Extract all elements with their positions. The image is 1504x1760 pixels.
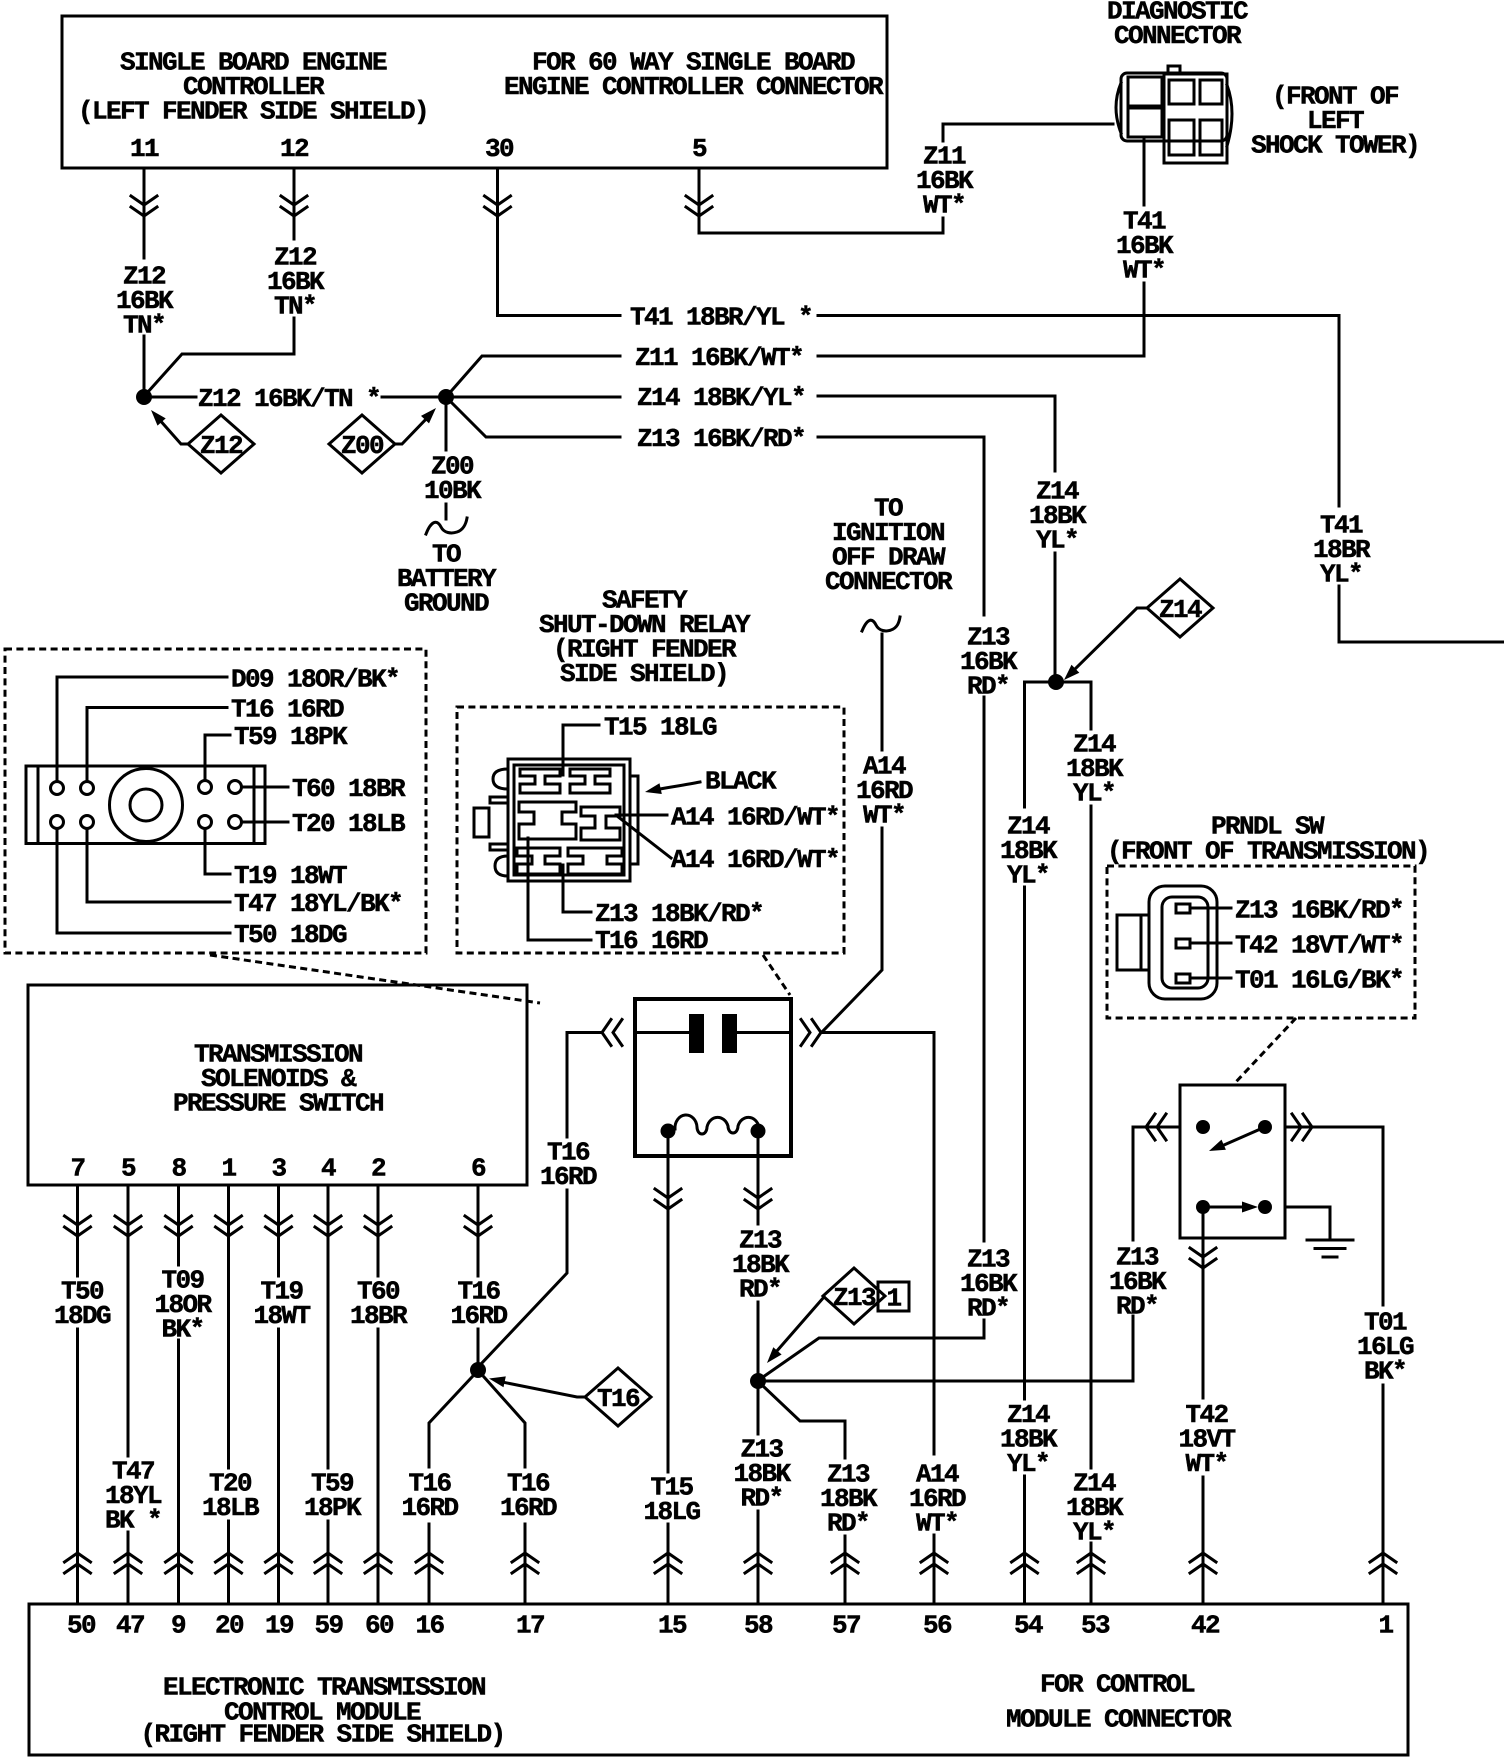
svg-text:59: 59 bbox=[314, 1610, 343, 1640]
svg-text:2: 2 bbox=[371, 1153, 386, 1183]
svg-text:ENGINE CONTROLLER CONNECTOR: ENGINE CONTROLLER CONNECTOR bbox=[504, 72, 884, 102]
wire to ground bbox=[1285, 1207, 1330, 1238]
wire A14 16RD WT pin 56 bbox=[821, 1033, 934, 1605]
svg-text:BK*: BK* bbox=[1364, 1356, 1406, 1386]
wire A14 16RD WT bbox=[823, 634, 882, 1031]
wire Z13 splice to PRNDL bbox=[766, 1380, 1133, 1383]
svg-text:7: 7 bbox=[70, 1153, 84, 1183]
label Z12 16BK TN* pin11 bbox=[116, 261, 174, 340]
label Z14 18BK YL* x1026 bbox=[1000, 811, 1058, 890]
connector chevron module entry bbox=[832, 1553, 858, 1573]
svg-text:Z13 18BK/RD*: Z13 18BK/RD* bbox=[595, 899, 763, 929]
label Z13 18BK RD* pin58 bbox=[733, 1434, 791, 1513]
svg-text:YL*: YL* bbox=[1073, 1517, 1115, 1547]
svg-text:6: 6 bbox=[471, 1153, 486, 1183]
dashed box transmission connector bbox=[5, 649, 426, 953]
label Z14 18BK YL* pin54 bbox=[1000, 1400, 1058, 1479]
connector chevron module entry bbox=[1190, 1553, 1216, 1573]
connector chevron capacitor right bbox=[801, 1020, 821, 1046]
wire Z14 branch pin 53 bbox=[1064, 682, 1091, 1604]
pointer Z13 diamond bbox=[776, 1297, 824, 1352]
label T16 16RD pin16 bbox=[401, 1468, 458, 1523]
svg-text:Z00: Z00 bbox=[341, 431, 384, 461]
diamond Z14 bbox=[1147, 579, 1213, 637]
wire T16 16RD pin 6 bbox=[477, 1185, 480, 1362]
relay coil terminal left bbox=[661, 1124, 676, 1139]
svg-text:WT*: WT* bbox=[916, 1508, 958, 1538]
trace T20 bbox=[242, 821, 288, 824]
svg-text:17: 17 bbox=[516, 1610, 544, 1640]
connector chevron pin5 bbox=[686, 196, 712, 216]
svg-text:RD*: RD* bbox=[967, 1293, 1009, 1323]
label T59 18PK bbox=[304, 1468, 362, 1523]
electronic transmission control module box bbox=[29, 1604, 1408, 1755]
trace D09 bbox=[57, 677, 227, 781]
diagnostic connector symbol bbox=[1116, 66, 1232, 163]
svg-text:TN*: TN* bbox=[274, 291, 316, 321]
svg-text:Z11 16BK/WT*: Z11 16BK/WT* bbox=[635, 343, 803, 373]
wire T41 18BR YL right edge bbox=[1339, 316, 1504, 643]
trace T50 bbox=[57, 829, 230, 933]
relay coil bbox=[675, 1115, 759, 1134]
splice node Z12 bbox=[136, 389, 152, 405]
connector chevron pin30 bbox=[485, 196, 511, 216]
diamond T16 bbox=[585, 1368, 651, 1426]
connector chevron module entry bbox=[115, 1553, 141, 1573]
svg-text:56: 56 bbox=[923, 1610, 952, 1640]
splice node Z14 bbox=[1048, 674, 1064, 690]
wire break ignition off draw bbox=[862, 617, 900, 631]
label diagnostic connector bbox=[1107, 0, 1248, 51]
svg-text:A14 16RD/WT*: A14 16RD/WT* bbox=[671, 845, 839, 875]
wire Z11 16BK/WT bbox=[446, 356, 1144, 397]
svg-text:8: 8 bbox=[171, 1153, 186, 1183]
svg-text:T50 18DG: T50 18DG bbox=[234, 920, 347, 950]
wire T15 pin15 lower bbox=[667, 1524, 670, 1604]
trace T59 bbox=[205, 735, 230, 780]
svg-text:T16: T16 bbox=[597, 1384, 640, 1414]
label A14 16RD WT* pin56 bbox=[909, 1459, 966, 1538]
svg-text:1: 1 bbox=[221, 1153, 236, 1183]
svg-text:60: 60 bbox=[365, 1610, 394, 1640]
svg-text:53: 53 bbox=[1081, 1610, 1110, 1640]
wire Z13 18BK RD from relay bbox=[757, 1138, 760, 1373]
svg-text:RD*: RD* bbox=[740, 1483, 782, 1513]
wire Z14 down to splice bbox=[1054, 396, 1057, 674]
wire Z14 branch pin 54 bbox=[1025, 682, 1049, 1604]
wire T20 18LB pin 20 bbox=[227, 1185, 230, 1604]
pointer T16 diamond bbox=[497, 1381, 585, 1397]
svg-text:(RIGHT FENDER SIDE SHIELD): (RIGHT FENDER SIDE SHIELD) bbox=[140, 1719, 504, 1749]
connector chevron module entry bbox=[655, 1553, 681, 1573]
svg-text:16RD: 16RD bbox=[401, 1493, 458, 1523]
svg-text:T19 18WT: T19 18WT bbox=[234, 861, 347, 891]
splice node Z13 bbox=[750, 1373, 766, 1389]
trace A14 no1 bbox=[616, 814, 667, 817]
engine controller box bbox=[62, 16, 887, 168]
trace PRNDL T01 bbox=[1190, 977, 1231, 980]
splice node Z00 bbox=[438, 389, 454, 405]
dashed pointer relay box bbox=[763, 955, 790, 995]
svg-text:T16 16RD: T16 16RD bbox=[595, 926, 708, 956]
svg-text:Z13: Z13 bbox=[833, 1283, 876, 1313]
svg-text:16RD: 16RD bbox=[500, 1493, 557, 1523]
label etcm line1 bbox=[163, 1672, 485, 1702]
svg-text:4: 4 bbox=[321, 1153, 336, 1183]
connector chevron transmission pin 2 bbox=[365, 1216, 391, 1236]
label T47 18YL BK* bbox=[105, 1456, 162, 1535]
svg-text:T47 18YL/BK*: T47 18YL/BK* bbox=[234, 889, 402, 919]
dashed pointer to transmission box bbox=[210, 955, 540, 1003]
label front of transmission bbox=[1107, 836, 1429, 866]
label Z13 16BK RD* x1133 bbox=[1109, 1242, 1167, 1321]
diamond Z13 circuit no.1 bbox=[823, 1268, 885, 1324]
svg-text:Z13 16BK/RD*: Z13 16BK/RD* bbox=[1235, 895, 1403, 925]
svg-text:RD*: RD* bbox=[739, 1274, 781, 1304]
connector body 8-way bbox=[26, 766, 265, 844]
trace PRNDL T42 bbox=[1190, 942, 1231, 945]
svg-text:BK*: BK* bbox=[161, 1314, 203, 1344]
wire T15 18LG pin 15 bbox=[667, 1138, 670, 1472]
svg-text:42: 42 bbox=[1191, 1610, 1220, 1640]
wire T01 16LG BK pin 1 bbox=[1285, 1127, 1383, 1604]
svg-text:30: 30 bbox=[485, 134, 514, 164]
svg-text:18LG: 18LG bbox=[643, 1497, 700, 1527]
svg-text:T20 18LB: T20 18LB bbox=[292, 809, 406, 839]
svg-text:YL*: YL* bbox=[1073, 778, 1115, 808]
label Z13 18BK RD* upper bbox=[732, 1225, 790, 1304]
pointer Z00 diamond bbox=[395, 416, 429, 444]
label BLACK with arrow bbox=[660, 782, 700, 789]
connector chevron transmission pin 4 bbox=[315, 1216, 341, 1236]
label T15 18LG pin15 bbox=[643, 1472, 700, 1527]
svg-text:T60 18BR: T60 18BR bbox=[292, 774, 406, 804]
relay coil terminal right bbox=[751, 1124, 766, 1139]
connector chevron module entry bbox=[921, 1553, 947, 1573]
wire T16 branch pin 16 bbox=[429, 1377, 472, 1604]
label: for 60 way connector bbox=[504, 47, 884, 102]
wire T41 16BK WT from diagnostic connector bbox=[1143, 138, 1146, 355]
svg-text:A14 16RD/WT*: A14 16RD/WT* bbox=[671, 802, 839, 832]
label T16 16RD pin6 bbox=[450, 1276, 507, 1331]
connector chevron module entry bbox=[65, 1553, 91, 1573]
svg-text:16RD: 16RD bbox=[540, 1162, 597, 1192]
svg-text:50: 50 bbox=[67, 1610, 96, 1640]
wire T16 16RD to splice bbox=[481, 1033, 602, 1365]
label PRNDL SW bbox=[1211, 811, 1325, 841]
svg-text:RD*: RD* bbox=[827, 1508, 869, 1538]
dashed pointer PRNDL switch bbox=[1234, 1018, 1296, 1084]
switch contacts bbox=[1196, 1120, 1210, 1134]
connector chevron prndl right bbox=[1292, 1114, 1312, 1140]
wire pin11 Z12 bbox=[143, 168, 146, 390]
svg-text:WT*: WT* bbox=[863, 800, 905, 830]
svg-text:(LEFT FENDER SIDE SHIELD): (LEFT FENDER SIDE SHIELD) bbox=[78, 96, 428, 126]
connector chevron module entry bbox=[315, 1553, 341, 1573]
wire Z12 16BK/TN inline bbox=[152, 396, 438, 399]
wire pin5 Z11 to diagnostic connector bbox=[699, 124, 1113, 233]
label to ignition off draw connector bbox=[825, 493, 953, 597]
connector chevron transmission pin 8 bbox=[166, 1216, 192, 1236]
label transmission solenoids bbox=[173, 1039, 383, 1118]
label T20 18LB bbox=[202, 1468, 260, 1523]
svg-text:MODULE CONNECTOR: MODULE CONNECTOR bbox=[1006, 1704, 1232, 1734]
label front of left shock tower bbox=[1251, 81, 1419, 160]
label T41 16BK WT* bbox=[1116, 206, 1174, 285]
svg-text:Z14: Z14 bbox=[1159, 595, 1202, 625]
wire pin30 T41 bbox=[498, 168, 621, 316]
svg-text:19: 19 bbox=[265, 1610, 294, 1640]
svg-text:T41 18BR/YL *: T41 18BR/YL * bbox=[630, 302, 812, 332]
connector chevron module entry bbox=[166, 1553, 192, 1573]
connector chevron module entry bbox=[365, 1553, 391, 1573]
diamond Z00 bbox=[329, 415, 395, 473]
connector chevron relay left bbox=[655, 1189, 681, 1209]
label Z14 18BK YL* upper bbox=[1029, 476, 1087, 555]
label to battery ground bbox=[397, 539, 497, 618]
svg-text:5: 5 bbox=[692, 134, 707, 164]
wire T42 18VT WT pin 42 bbox=[1202, 1214, 1205, 1604]
svg-text:16: 16 bbox=[415, 1610, 444, 1640]
dashed box relay connector bbox=[457, 707, 844, 953]
label safety shut-down relay bbox=[539, 585, 751, 689]
wire Z13 16BK RD prndl left bbox=[1133, 1127, 1180, 1381]
label T42 18VT WT* bbox=[1178, 1400, 1235, 1479]
label Z13 16BK RD* upper bbox=[960, 622, 1018, 701]
connector chevron prndl left bbox=[1146, 1114, 1166, 1140]
wire T47 18YL BK pin 47 bbox=[127, 1185, 130, 1604]
trace T16 bbox=[87, 708, 227, 782]
svg-text:18BR: 18BR bbox=[350, 1301, 408, 1331]
svg-text:T16 16RD: T16 16RD bbox=[231, 694, 344, 724]
svg-text:BK *: BK * bbox=[105, 1505, 161, 1535]
label T19 18WT bbox=[253, 1276, 310, 1331]
svg-text:WT*: WT* bbox=[1185, 1449, 1227, 1479]
relay box bbox=[635, 999, 791, 1156]
transmission solenoids box bbox=[28, 985, 527, 1185]
label Z12 16BK TN* pin12 bbox=[267, 242, 325, 321]
connector chevron capacitor left bbox=[602, 1020, 622, 1046]
wire break to battery ground bbox=[426, 518, 467, 534]
connector chevron transmission pin 1 bbox=[216, 1216, 242, 1236]
connector chevron module entry bbox=[266, 1553, 292, 1573]
label T60 18BR bbox=[350, 1276, 408, 1331]
wire Z13 16BK/RD bbox=[446, 397, 984, 437]
svg-text:18WT: 18WT bbox=[253, 1301, 310, 1331]
connector chevron transmission pin 5 bbox=[115, 1216, 141, 1236]
label: single board engine controller bbox=[78, 47, 428, 126]
connector chevron module entry bbox=[1370, 1553, 1396, 1573]
wire T60 18BR pin 60 bbox=[377, 1185, 380, 1604]
svg-text:T42 18VT/WT*: T42 18VT/WT* bbox=[1235, 930, 1403, 960]
svg-text:20: 20 bbox=[215, 1610, 244, 1640]
trace T47 bbox=[87, 829, 230, 902]
label Z00 10BK bbox=[424, 451, 482, 506]
wire T50 18DG pin 50 bbox=[76, 1185, 79, 1604]
svg-text:47: 47 bbox=[116, 1610, 144, 1640]
wire Z13 pin 58 bbox=[757, 1389, 760, 1604]
trace A14 no2 bbox=[617, 816, 671, 858]
svg-text:RD*: RD* bbox=[967, 671, 1009, 701]
svg-text:FOR CONTROL: FOR CONTROL bbox=[1040, 1669, 1195, 1699]
pointer Z14 diamond bbox=[1073, 608, 1147, 671]
label T16 16RD pin17 bbox=[500, 1468, 557, 1523]
svg-text:CONNECTOR: CONNECTOR bbox=[1114, 21, 1242, 51]
trace PRNDL Z13 bbox=[1190, 907, 1231, 910]
svg-text:5: 5 bbox=[121, 1153, 136, 1183]
connector chevron module entry bbox=[416, 1553, 442, 1573]
wire Z14 18BK/YL bbox=[454, 396, 1055, 397]
svg-text:Z13 16BK/RD*: Z13 16BK/RD* bbox=[637, 424, 805, 454]
dashed box PRNDL connector bbox=[1107, 866, 1415, 1018]
svg-text:18LB: 18LB bbox=[202, 1493, 260, 1523]
trace T60 bbox=[242, 786, 288, 789]
svg-text:Z12 16BK/TN *: Z12 16BK/TN * bbox=[198, 384, 380, 414]
label Z11 16BK WT* bbox=[916, 141, 974, 220]
svg-text:18PK: 18PK bbox=[304, 1493, 362, 1523]
wire Z13 pin 57 bbox=[763, 1386, 845, 1604]
svg-text:T15 18LG: T15 18LG bbox=[604, 712, 717, 742]
wire T09 18OR BK pin 9 bbox=[177, 1185, 180, 1604]
svg-text:54: 54 bbox=[1014, 1610, 1043, 1640]
svg-text:16RD: 16RD bbox=[450, 1301, 507, 1331]
connector chevron module entry bbox=[1012, 1553, 1038, 1573]
svg-text:TN*: TN* bbox=[123, 310, 165, 340]
label T01 16LG BK* bbox=[1357, 1307, 1414, 1386]
svg-text:(FRONT OF TRANSMISSION): (FRONT OF TRANSMISSION) bbox=[1107, 836, 1429, 866]
svg-text:11: 11 bbox=[130, 134, 159, 164]
connector chevron prndl bottom bbox=[1190, 1248, 1216, 1268]
svg-text:57: 57 bbox=[832, 1610, 860, 1640]
label T16 16RD x567 bbox=[540, 1137, 597, 1192]
svg-text:PRESSURE SWITCH: PRESSURE SWITCH bbox=[173, 1088, 383, 1118]
svg-text:T01 16LG/BK*: T01 16LG/BK* bbox=[1235, 965, 1403, 995]
label Z14 18BK YL* x1090 bbox=[1066, 729, 1124, 808]
trace Z13 socket bbox=[563, 865, 591, 912]
label Z13 18BK RD* pin57 bbox=[820, 1459, 878, 1538]
connector chevron transmission pin 3 bbox=[266, 1216, 292, 1236]
switch lower contact arrow bbox=[1203, 1206, 1242, 1209]
connector chevron pin11 bbox=[131, 196, 157, 216]
svg-text:Z14 18BK/YL*: Z14 18BK/YL* bbox=[637, 383, 805, 413]
svg-text:12: 12 bbox=[280, 134, 309, 164]
svg-text:YL*: YL* bbox=[1007, 860, 1049, 890]
svg-text:3: 3 bbox=[271, 1153, 286, 1183]
wire T19 18WT pin 19 bbox=[277, 1185, 280, 1604]
connector chevron transmission pin 6 bbox=[465, 1216, 491, 1236]
svg-text:YL*: YL* bbox=[1036, 525, 1078, 555]
connector chevron pin12 bbox=[281, 196, 307, 216]
connector chevron module entry bbox=[512, 1553, 538, 1573]
trace T19 bbox=[205, 829, 230, 874]
svg-text:1: 1 bbox=[886, 1283, 901, 1313]
svg-text:18DG: 18DG bbox=[54, 1301, 111, 1331]
wire pin12 Z12 bbox=[147, 168, 294, 393]
svg-text:9: 9 bbox=[171, 1610, 186, 1640]
diamond Z12 bbox=[188, 415, 254, 473]
label for control bbox=[1040, 1669, 1195, 1699]
label etcm line2 bbox=[224, 1697, 421, 1727]
capacitor plates bbox=[689, 1014, 704, 1053]
connector chevron module entry bbox=[216, 1553, 242, 1573]
PRNDL connector symbol bbox=[1117, 886, 1217, 999]
svg-text:WT*: WT* bbox=[1123, 255, 1165, 285]
svg-text:BLACK: BLACK bbox=[705, 766, 777, 796]
svg-text:T59 18PK: T59 18PK bbox=[234, 722, 348, 752]
switch arm bbox=[1224, 1127, 1265, 1145]
connector chevron module entry bbox=[745, 1553, 771, 1573]
svg-text:GROUND: GROUND bbox=[404, 588, 489, 618]
connector chevron relay right bbox=[745, 1189, 771, 1209]
pointer Z12 diamond bbox=[158, 418, 188, 444]
svg-text:58: 58 bbox=[744, 1610, 773, 1640]
label module connector bbox=[1006, 1704, 1232, 1734]
wire Z13 16BK RD main bbox=[763, 437, 984, 1377]
wire T59 18PK pin 59 bbox=[327, 1185, 330, 1604]
svg-text:WT*: WT* bbox=[923, 190, 965, 220]
relay socket drawing bbox=[474, 759, 638, 881]
splice node T16 bbox=[470, 1362, 486, 1378]
label T41 18BR YL* bbox=[1313, 510, 1371, 589]
label Z14 18BK YL* pin53 bbox=[1066, 1468, 1124, 1547]
connector chevron module entry bbox=[1078, 1553, 1104, 1573]
label etcm line3 bbox=[140, 1719, 504, 1749]
ground symbol bbox=[1307, 1240, 1353, 1257]
svg-text:10BK: 10BK bbox=[424, 476, 482, 506]
PRNDL switch box bbox=[1180, 1085, 1285, 1238]
svg-text:SHOCK TOWER): SHOCK TOWER) bbox=[1251, 130, 1419, 160]
connector chevron transmission pin 7 bbox=[65, 1216, 91, 1236]
svg-text:SIDE SHIELD): SIDE SHIELD) bbox=[560, 659, 728, 689]
label A14 16RD WT* bbox=[856, 751, 913, 830]
trace T15 socket bbox=[563, 725, 599, 775]
label Z13 16BK RD* mid bbox=[960, 1244, 1018, 1323]
svg-text:YL*: YL* bbox=[1007, 1449, 1049, 1479]
svg-text:CONNECTOR: CONNECTOR bbox=[825, 567, 953, 597]
svg-text:15: 15 bbox=[658, 1610, 687, 1640]
label T50 18DG bbox=[54, 1276, 111, 1331]
label T09 18OR BK* bbox=[154, 1265, 212, 1344]
wire T41 18BR/YL right segment bbox=[620, 314, 1339, 317]
wire T16 branch pin 17 bbox=[484, 1377, 525, 1604]
wire capacitor row bbox=[635, 1031, 791, 1034]
svg-text:YL*: YL* bbox=[1320, 559, 1362, 589]
svg-text:RD*: RD* bbox=[1116, 1291, 1158, 1321]
svg-text:Z12: Z12 bbox=[200, 431, 243, 461]
svg-text:D09 18OR/BK*: D09 18OR/BK* bbox=[231, 664, 399, 694]
wire Z00 10BK bbox=[445, 405, 448, 519]
trace T16 socket bbox=[528, 838, 591, 940]
svg-text:1: 1 bbox=[1378, 1610, 1393, 1640]
